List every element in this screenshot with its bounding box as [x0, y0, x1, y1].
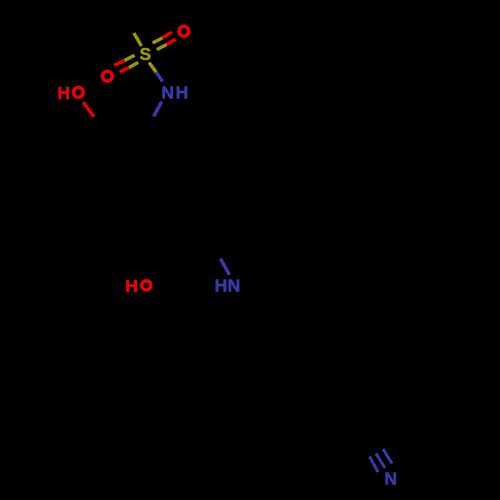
wire: bond S=O lower-left, line 2 red half — [120, 68, 129, 72]
wire: bond S=O lower-left, line 1 olive half — [124, 55, 134, 60]
wire: bond S-N olive half — [149, 63, 156, 73]
svg-text:H: H — [125, 276, 138, 296]
svg-text:H: H — [176, 83, 189, 103]
wire: bond S-N blue half — [156, 72, 162, 81]
wire: bond S=O upper-right, line 2 olive half — [157, 45, 167, 50]
node HO: phenol hydroxyl (O ring) — [74, 87, 84, 97]
node O: sulfonyl oxygen upper-right — [179, 26, 189, 36]
wire: bond S=O upper-right, line 2 red half — [167, 39, 176, 44]
wire: nitrile triple bond line 3 (blue half) — [383, 449, 392, 464]
svg-text:N: N — [161, 83, 174, 103]
svg-text:N: N — [384, 469, 397, 489]
wire: nitrile triple bond line 1 (blue half) — [370, 457, 379, 473]
wire: bond S=O lower-left, line 2 olive half — [129, 62, 138, 67]
node O: sulfonyl oxygen lower-left — [102, 71, 112, 81]
svg-text:N: N — [228, 275, 241, 295]
wire: bond O-C from phenol HO down-right (red half) — [83, 102, 94, 116]
wire: bond CH3-S (sulfur half, olive) — [134, 33, 142, 46]
svg-text:S: S — [140, 44, 152, 64]
wire: bond S=O upper-right, line 1 red half — [162, 32, 171, 38]
wire: bond S=O lower-left, line 1 red half — [114, 61, 124, 66]
svg-text:H: H — [215, 275, 228, 295]
wire: bond N-C from HN up-left (blue half) — [220, 259, 229, 275]
wire: nitrile triple bond line 2 (blue half) — [376, 454, 385, 469]
svg-text:H: H — [57, 83, 70, 103]
wire: bond S=O upper-right, line 1 olive half — [153, 38, 163, 43]
wire: bond N-C from NH down-left (blue half) — [154, 102, 162, 117]
node HO: benzylic hydroxyl (O ring) — [142, 281, 151, 290]
